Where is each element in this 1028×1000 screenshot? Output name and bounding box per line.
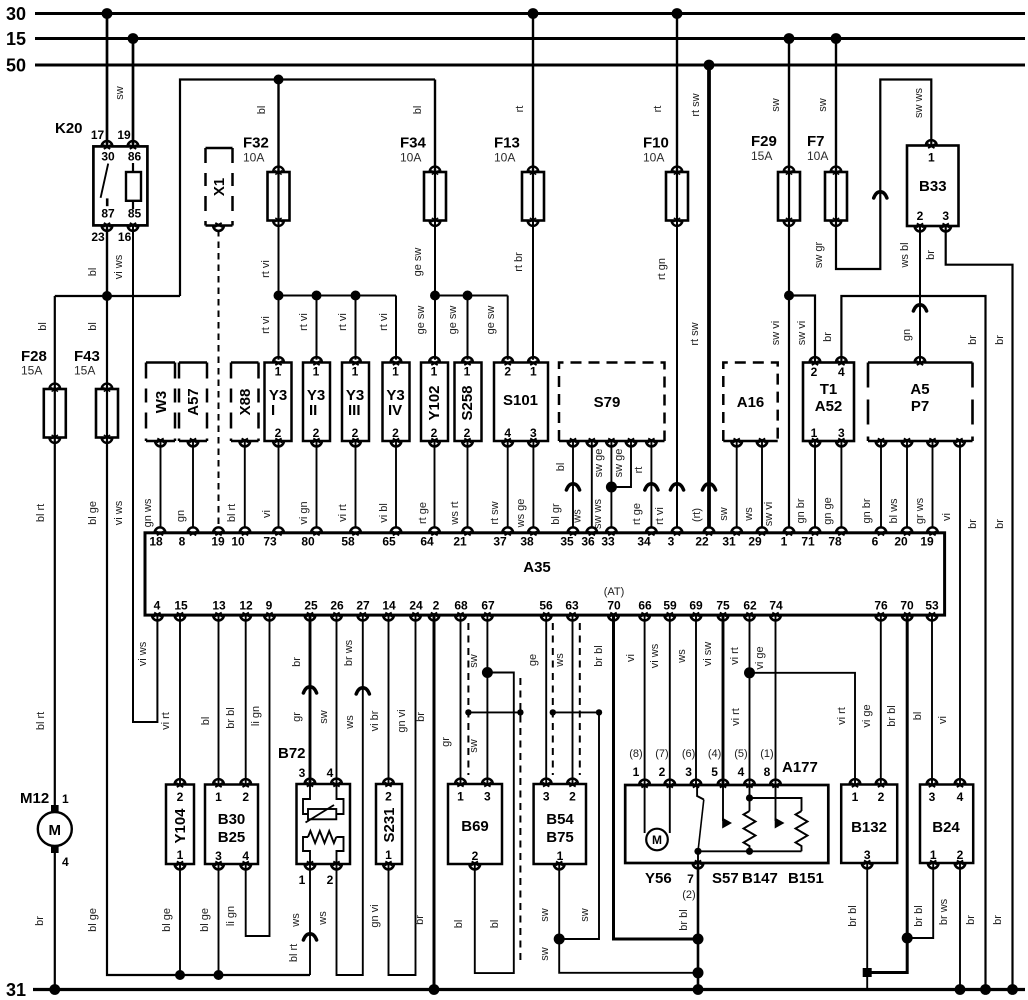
svg-text:1: 1 <box>275 365 282 379</box>
svg-text:53: 53 <box>925 599 939 613</box>
svg-text:br bl: br bl <box>886 705 898 726</box>
svg-text:1: 1 <box>457 790 464 804</box>
svg-text:19: 19 <box>211 535 225 549</box>
svg-text:22: 22 <box>695 535 709 549</box>
svg-text:50: 50 <box>6 56 26 76</box>
svg-text:br: br <box>994 335 1006 345</box>
wire A35 pin67 to B69 pin3, labels sw / sw <box>468 615 487 784</box>
fuse F10 10A <box>643 135 688 226</box>
svg-text:rt ge: rt ge <box>417 502 429 524</box>
sensor B30 B25 <box>205 779 258 869</box>
svg-text:85: 85 <box>128 207 142 221</box>
svg-text:ws bl: ws bl <box>899 242 911 268</box>
svg-text:19: 19 <box>920 535 934 549</box>
svg-text:29: 29 <box>748 535 762 549</box>
wire Y102 to A35 pin64, label rt ge <box>417 441 435 528</box>
svg-text:4: 4 <box>154 599 161 613</box>
wire F13 to bus30, label rt <box>514 14 533 173</box>
svg-text:2: 2 <box>659 765 666 779</box>
svg-text:38: 38 <box>520 535 534 549</box>
relay K20 <box>55 120 147 244</box>
A35 top pins <box>149 527 938 548</box>
wire B24 pin2 to bus31, label br ws <box>938 863 960 990</box>
wire F7 to bus15, label sw <box>817 39 836 173</box>
svg-text:1: 1 <box>385 848 392 862</box>
svg-text:rt vi: rt vi <box>260 316 272 334</box>
wire B24 pin1 to pin70b wire, label br bl <box>907 863 933 938</box>
wire B54 pin1 down, labels sw / sw <box>539 864 698 973</box>
wire A5-a to A35 pin6, label gn br <box>861 441 881 528</box>
svg-text:13: 13 <box>212 599 226 613</box>
svg-text:2: 2 <box>431 426 438 440</box>
svg-text:sw ge: sw ge <box>593 449 605 478</box>
wire B132 pin3 to bus31, label br bl <box>847 863 867 990</box>
svg-text:sw vi: sw vi <box>763 502 775 526</box>
svg-text:rt vi: rt vi <box>378 313 390 331</box>
svg-text:15A: 15A <box>21 364 42 378</box>
dashed link D <box>579 623 581 775</box>
svg-text:31: 31 <box>6 980 26 1000</box>
wire F7 bottom riser to B33 pin1, labels sw gr / sw ws <box>813 80 931 270</box>
node rail/Y104 <box>175 970 185 980</box>
svg-text:F13: F13 <box>494 135 520 152</box>
wire S79-3 to A35 pin33, labels sw ge / sw ws <box>592 441 611 529</box>
mech link H1 <box>465 709 523 715</box>
node B33-3/bus31 <box>1007 984 1018 995</box>
svg-text:ge sw: ge sw <box>447 306 459 335</box>
switch S57 inside A177 <box>694 785 703 855</box>
svg-text:3: 3 <box>942 209 949 223</box>
svg-text:bl: bl <box>256 106 268 115</box>
node rt-vi/Y3-III <box>351 291 361 301</box>
fuse F28 15A <box>21 348 66 443</box>
svg-text:P7: P7 <box>911 398 929 415</box>
svg-text:B33: B33 <box>919 178 947 195</box>
sensor B132 <box>841 779 897 868</box>
svg-text:67: 67 <box>481 599 495 613</box>
wire drop S258, label ge sw <box>447 296 468 360</box>
svg-text:ge sw: ge sw <box>412 248 424 277</box>
svg-text:sw: sw <box>770 98 782 112</box>
wire A35 pin53 to B24 pin3, label bl <box>912 615 932 784</box>
wire T1-4 to bus31 right, labels br <box>822 296 986 990</box>
svg-text:F34: F34 <box>400 135 427 152</box>
fuse F34 10A <box>400 135 446 226</box>
svg-text:rt: rt <box>633 467 645 474</box>
wire to F43 top, label bl <box>87 296 107 389</box>
svg-text:rt vi: rt vi <box>260 260 272 278</box>
svg-text:ws: ws <box>554 653 566 668</box>
fuse F13 10A <box>494 135 544 226</box>
svg-text:sw: sw <box>579 908 591 922</box>
wire K20 pin17 to bus 30 <box>106 14 109 147</box>
svg-text:vi: vi <box>941 513 953 521</box>
svg-text:34: 34 <box>637 535 651 549</box>
svg-text:vi ge: vi ge <box>861 704 873 727</box>
svg-text:li gn: li gn <box>250 706 262 726</box>
svg-text:15: 15 <box>6 29 26 49</box>
wire M12 pin4 to bus31, label br <box>34 853 55 990</box>
svg-text:rt: rt <box>514 106 526 113</box>
svg-text:rt: rt <box>652 106 664 113</box>
svg-text:10A: 10A <box>643 151 664 165</box>
wire drop Y3-III, label rt vi <box>337 296 356 360</box>
control unit A35 <box>145 533 945 615</box>
svg-text:br ws: br ws <box>938 898 950 925</box>
svg-text:ws: ws <box>290 913 302 928</box>
node feed/F32 <box>274 75 284 85</box>
svg-text:1: 1 <box>177 848 184 862</box>
wire Y3-III to A35 pin58, label vi rt <box>337 441 356 528</box>
svg-text:3: 3 <box>929 790 936 804</box>
wire A35 pin70b thick to B132-3 wire, label br bl <box>867 615 907 972</box>
wire F43 bottom to bl-ge rail, labels bl ge <box>87 438 310 976</box>
wire T1-1 to A35 pin71, label gn br <box>795 441 815 528</box>
sensor B24 <box>920 779 973 868</box>
svg-text:1: 1 <box>811 426 818 440</box>
svg-text:2: 2 <box>352 426 359 440</box>
wire A35 pin63 to B54 pin2, label ws <box>554 615 573 784</box>
svg-text:10A: 10A <box>400 151 421 165</box>
svg-text:B147: B147 <box>742 870 778 887</box>
svg-text:(1): (1) <box>760 748 773 760</box>
svg-text:ws ge: ws ge <box>515 499 527 529</box>
wire A35 pin68 to B69 pin1, label gr <box>440 615 461 784</box>
arrow pin5 at B147 <box>722 785 732 829</box>
sender B151 inside A177 <box>796 811 808 851</box>
wire bus50 to A35 pin22 thick, labels rt sw / (rt) <box>689 65 716 528</box>
svg-text:br: br <box>34 916 46 926</box>
svg-text:2: 2 <box>811 365 818 379</box>
svg-text:30: 30 <box>101 150 115 164</box>
wire S101 pin4 to A35 pin37, label rt sw <box>489 441 508 528</box>
svg-text:gn br: gn br <box>795 498 807 523</box>
switch S258 <box>455 357 482 446</box>
svg-text:bl: bl <box>555 463 567 472</box>
sensor B54 B75 <box>534 779 586 870</box>
wire F34 top drop, label bl <box>412 80 435 173</box>
svg-text:S258: S258 <box>459 385 476 420</box>
svg-text:2: 2 <box>275 426 282 440</box>
wire drop Y3-II, label rt vi <box>298 296 317 360</box>
dashed link B <box>519 678 521 961</box>
svg-text:bl rt: bl rt <box>226 504 238 522</box>
svg-text:4: 4 <box>738 765 745 779</box>
wire drop Y3-IV, label rt vi <box>378 296 396 360</box>
wire H2 riser to B54 pin1 net, label sw <box>559 712 599 939</box>
svg-text:Y56: Y56 <box>645 870 672 887</box>
svg-text:Y102: Y102 <box>426 385 443 420</box>
svg-text:IV: IV <box>388 402 402 419</box>
svg-text:bl: bl <box>87 268 99 277</box>
node sw rail / Y56-7 wire <box>693 967 704 978</box>
svg-text:br: br <box>925 250 937 260</box>
svg-text:ws: ws <box>676 649 688 664</box>
svg-text:sw ws: sw ws <box>913 88 925 118</box>
svg-text:10A: 10A <box>243 151 264 165</box>
svg-text:B75: B75 <box>546 829 574 846</box>
wire S79-4 bend, label sw ge <box>611 441 631 487</box>
svg-text:sw: sw <box>114 86 126 100</box>
wire F28 bottom to M12 pin1, labels bl rt <box>35 438 55 806</box>
svg-text:F29: F29 <box>751 133 777 150</box>
wire S79-2 to A35 pin36, label ws <box>572 441 592 528</box>
svg-text:1: 1 <box>392 365 399 379</box>
wire Y56 pin7 to bus31, label br bl <box>678 863 698 990</box>
wire F34 bottom to Y102, labels ge sw <box>412 221 435 360</box>
svg-text:(8): (8) <box>629 748 642 760</box>
switch S231 <box>376 779 402 870</box>
wire B33-2 to A5/P7, labels ws bl / gn <box>899 226 927 363</box>
svg-text:T1: T1 <box>820 381 838 398</box>
svg-text:br: br <box>992 915 1004 925</box>
control unit A16 <box>723 363 777 447</box>
fuse F7 10A <box>807 133 847 226</box>
svg-text:gn ws: gn ws <box>142 498 154 527</box>
svg-text:gn ge: gn ge <box>822 497 834 525</box>
node K20-23/F43 junction <box>102 291 112 301</box>
svg-text:bl: bl <box>87 322 99 331</box>
bus 30 <box>6 4 1025 24</box>
wire B30 pin3 down, label bl ge <box>199 864 219 975</box>
svg-text:sw ge: sw ge <box>613 449 625 478</box>
svg-text:26: 26 <box>330 599 344 613</box>
wire A35 pin4 to K20 pin16, labels vi ws <box>113 225 157 722</box>
wire A35 pin75 to A177 pin5 thick, label vi sw <box>702 615 723 785</box>
svg-text:sw vi: sw vi <box>796 321 808 345</box>
wire B72 pin2 up to A35 pin27, labels ws / br ws / ws <box>317 615 369 975</box>
svg-text:2: 2 <box>433 599 440 613</box>
svg-text:rt vi: rt vi <box>298 313 310 331</box>
svg-text:10A: 10A <box>494 151 515 165</box>
wire F32 bottom to Y3-I, labels rt vi <box>260 221 279 360</box>
svg-text:ws: ws <box>572 509 584 524</box>
svg-text:vi rt: vi rt <box>729 647 741 665</box>
svg-text:1: 1 <box>557 849 564 863</box>
svg-text:A52: A52 <box>815 398 843 415</box>
wire drop S101 pin2, label ge sw <box>485 296 508 360</box>
svg-text:2: 2 <box>313 426 320 440</box>
svg-text:br: br <box>967 335 979 345</box>
svg-text:bl ge: bl ge <box>87 908 99 932</box>
svg-text:2: 2 <box>177 790 184 804</box>
svg-text:S231: S231 <box>381 807 398 842</box>
node bus30/K20 <box>102 8 113 19</box>
node ge-sw/S258 <box>463 291 473 301</box>
svg-text:58: 58 <box>341 535 355 549</box>
svg-text:vi br: vi br <box>369 710 381 731</box>
svg-text:gr: gr <box>291 712 303 722</box>
wire A35 pin59 to A177 pin2, label vi ws <box>649 615 670 785</box>
svg-text:S79: S79 <box>594 394 621 411</box>
connector X88 <box>231 363 259 447</box>
svg-text:3: 3 <box>543 790 550 804</box>
A177 bottom labels <box>645 870 824 901</box>
svg-text:Y104: Y104 <box>172 808 189 844</box>
svg-text:(5): (5) <box>734 748 747 760</box>
wire A16-2 to A35 pin29, label ws <box>743 441 762 528</box>
svg-text:1: 1 <box>299 873 306 887</box>
svg-text:bl: bl <box>912 712 924 721</box>
wire A35 pin56 to B54 pin3, label ge <box>527 615 546 784</box>
sender B147 inside A177 <box>744 785 756 855</box>
svg-text:br bl: br bl <box>847 905 859 926</box>
wire A5-c to A35 pin19, label gr ws <box>914 441 933 528</box>
A35 bottom pins <box>152 599 939 621</box>
svg-text:br: br <box>994 519 1006 529</box>
svg-text:8: 8 <box>179 535 186 549</box>
svg-text:gr ws: gr ws <box>914 497 926 524</box>
svg-text:rt ge: rt ge <box>631 503 643 525</box>
svg-text:bl: bl <box>489 920 501 929</box>
svg-text:2: 2 <box>385 790 392 804</box>
svg-text:M12: M12 <box>20 790 49 807</box>
svg-text:F7: F7 <box>807 133 825 150</box>
node pin70b/B24-1 <box>902 933 913 944</box>
svg-text:ws: ws <box>344 715 356 730</box>
svg-text:2: 2 <box>327 873 334 887</box>
svg-text:25: 25 <box>304 599 318 613</box>
wire F29 to bus15, label sw <box>770 39 789 173</box>
svg-text:2: 2 <box>464 426 471 440</box>
rail inside A177 <box>698 851 802 863</box>
resistance unit B72 <box>278 745 350 887</box>
svg-text:70: 70 <box>607 599 621 613</box>
svg-text:4: 4 <box>327 766 334 780</box>
svg-text:31: 31 <box>722 535 736 549</box>
wire F10 to bus30, label rt <box>652 14 677 173</box>
svg-text:37: 37 <box>493 535 507 549</box>
wire F29 bottom, labels sw vi <box>763 221 789 529</box>
svg-text:sw: sw <box>468 739 480 753</box>
svg-text:86: 86 <box>128 150 142 164</box>
svg-text:69: 69 <box>689 599 703 613</box>
svg-text:vi ws: vi ws <box>649 643 661 668</box>
svg-text:68: 68 <box>454 599 468 613</box>
node T1-4/bus31 <box>980 984 991 995</box>
wire A35 pin66 to A177 pin1, label vi <box>625 615 645 785</box>
wire A5-b to A35 pin20, label bl ws <box>888 441 907 528</box>
svg-text:rt br: rt br <box>513 252 525 272</box>
wire A35 pin14 to S231 pin2, label vi br <box>369 615 389 784</box>
sensor B33 <box>907 140 959 231</box>
svg-text:(4): (4) <box>708 748 721 760</box>
svg-text:F10: F10 <box>643 135 669 152</box>
svg-text:1: 1 <box>62 792 69 806</box>
svg-text:I: I <box>271 402 275 419</box>
svg-text:3: 3 <box>484 790 491 804</box>
svg-text:75: 75 <box>716 599 730 613</box>
svg-text:X88: X88 <box>237 389 254 416</box>
svg-text:rt vi: rt vi <box>654 507 666 525</box>
svg-text:vi: vi <box>261 510 273 518</box>
svg-text:A57: A57 <box>185 388 202 416</box>
wire branch to B132 pin1, label vi rt <box>750 673 856 785</box>
svg-text:vi ws: vi ws <box>113 254 125 279</box>
svg-text:7: 7 <box>687 872 694 886</box>
node ge-sw net at Y102 <box>430 291 440 301</box>
svg-text:vi bl: vi bl <box>378 503 390 523</box>
wire F13 bottom to S101 pin1, label rt br <box>513 221 533 360</box>
svg-text:ge sw: ge sw <box>415 306 427 335</box>
svg-text:65: 65 <box>382 535 396 549</box>
wire A35 pin9 loop to B30 pin4, labels li gn <box>225 615 270 936</box>
svg-text:vi rt: vi rt <box>160 712 172 730</box>
wire A35 pin2 to bus31 thick, labels br <box>414 615 434 989</box>
switch S101 <box>494 357 548 446</box>
svg-text:sw: sw <box>718 507 730 521</box>
svg-text:bl: bl <box>412 106 424 115</box>
fuse F29 15A <box>751 133 800 226</box>
bus 50 <box>6 56 1025 76</box>
wire S258 to A35 pin21, label ws rt <box>449 441 468 528</box>
svg-text:59: 59 <box>663 599 677 613</box>
node pin62/B132 branch <box>744 667 755 678</box>
svg-text:B30: B30 <box>218 811 246 828</box>
wire S231 pin1 up to A35 pin24, labels gn vi <box>369 615 416 975</box>
svg-text:1: 1 <box>928 151 935 165</box>
svg-text:B151: B151 <box>788 870 824 887</box>
node pin67/B69-2 branch <box>482 667 493 678</box>
node S79-3/S79-4 <box>606 482 617 493</box>
sensor B69 <box>448 779 502 870</box>
svg-text:br bl: br bl <box>225 707 237 728</box>
svg-text:3: 3 <box>530 426 537 440</box>
svg-text:23: 23 <box>91 230 105 244</box>
node bus15/F7 <box>831 33 842 44</box>
svg-text:vi sw: vi sw <box>702 642 714 667</box>
svg-text:71: 71 <box>801 535 815 549</box>
svg-text:B72: B72 <box>278 745 306 762</box>
svg-text:A177: A177 <box>782 759 818 776</box>
svg-text:vi rt: vi rt <box>337 504 349 522</box>
svg-text:(2): (2) <box>682 889 695 901</box>
svg-text:ws: ws <box>317 911 329 926</box>
svg-text:(rt): (rt) <box>691 508 703 522</box>
node B54-1/H2 riser <box>554 934 565 945</box>
svg-text:62: 62 <box>743 599 757 613</box>
wire X88 to A35 pin10, label bl rt <box>226 441 245 528</box>
svg-text:sw: sw <box>539 908 551 922</box>
svg-text:27: 27 <box>356 599 370 613</box>
node bus50/pin22 <box>704 60 715 71</box>
node pin2/bus31 <box>429 984 440 995</box>
wire B147 top to B151 top <box>750 798 802 811</box>
wire A35 pin26 to B72 pin4, label sw <box>318 615 337 784</box>
wire A35 pin70AT thick, label br bl <box>593 615 698 939</box>
svg-text:1: 1 <box>633 765 640 779</box>
node B24-2/bus31 <box>955 984 966 995</box>
wire X1 dashed to A35 pin19 <box>218 230 220 527</box>
svg-text:1: 1 <box>313 365 320 379</box>
svg-text:19: 19 <box>117 128 131 142</box>
svg-text:vi ge: vi ge <box>754 646 766 669</box>
svg-text:36: 36 <box>581 535 595 549</box>
node bus15/K20 <box>128 33 139 44</box>
svg-text:S101: S101 <box>503 392 538 409</box>
svg-text:(AT): (AT) <box>604 586 625 598</box>
svg-text:16: 16 <box>118 230 132 244</box>
svg-text:X1: X1 <box>211 178 228 196</box>
node rail/B30 <box>214 970 224 980</box>
svg-text:12: 12 <box>239 599 253 613</box>
svg-text:80: 80 <box>301 535 315 549</box>
wire A35 pin74 to A177 pin8, label vi ge <box>754 615 776 785</box>
svg-text:4: 4 <box>957 790 964 804</box>
wire Y3-I to A35 pin73, label vi <box>261 441 279 528</box>
svg-text:sw: sw <box>817 98 829 112</box>
wire K20 pin23 down, label bl <box>87 225 107 296</box>
